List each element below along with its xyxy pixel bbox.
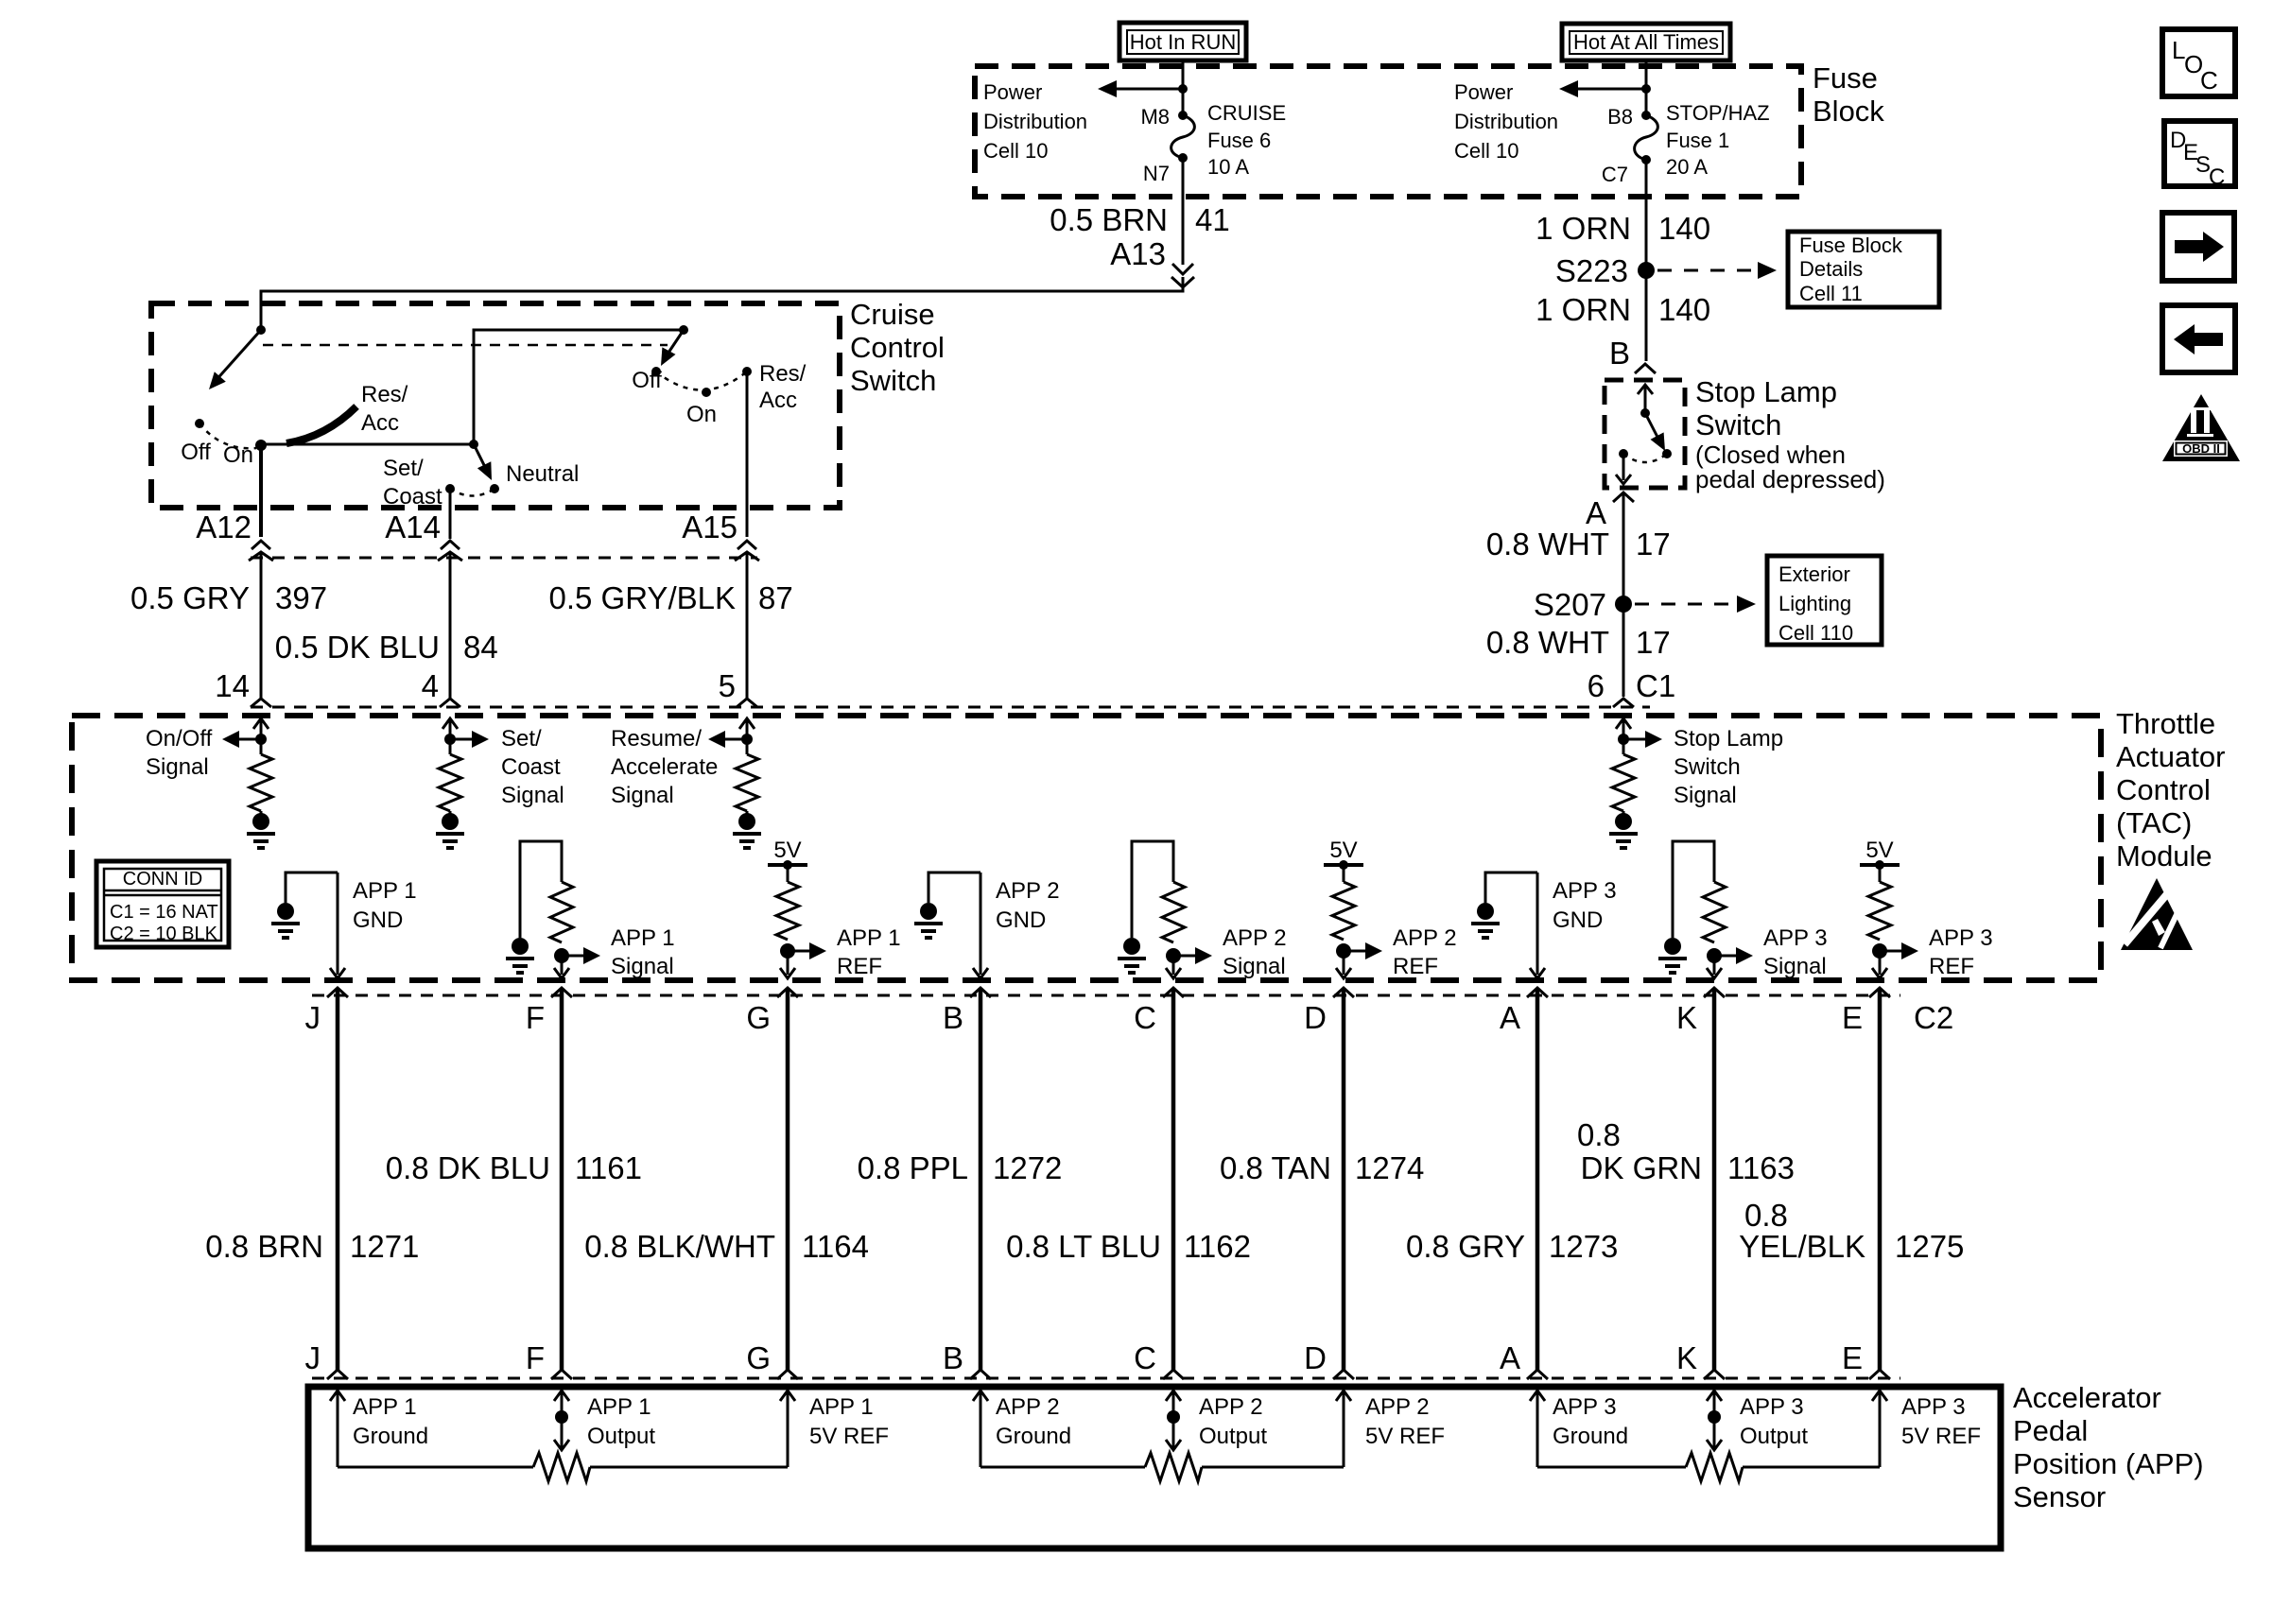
APP 2 pull resistor [1162, 882, 1185, 942]
svg-text:0.8 LT BLU: 0.8 LT BLU [1006, 1229, 1161, 1264]
svg-text:On: On [223, 442, 253, 468]
label: APP 2 5V REF [1365, 1394, 1445, 1449]
svg-text:Details: Details [1799, 257, 1863, 281]
APP 3 REF resistor [1879, 865, 1882, 882]
svg-text:Cell 10: Cell 10 [1454, 139, 1518, 163]
wire: harness B from TAC to APP sensor [979, 988, 983, 1370]
svg-text:A14: A14 [385, 510, 441, 544]
svg-text:Res/: Res/ [759, 361, 807, 387]
svg-text:5V: 5V [1865, 838, 1893, 863]
svg-text:Sensor: Sensor [2013, 1480, 2106, 1513]
svg-text:Res/: Res/ [361, 382, 408, 407]
wire: Set/Coast contact down to connector A14 [449, 489, 452, 539]
svg-text:APP 2: APP 2 [1393, 925, 1457, 951]
svg-text:A12: A12 [196, 510, 252, 544]
svg-text:Output: Output [1199, 1424, 1267, 1449]
svg-text:B: B [943, 1340, 963, 1375]
svg-text:C1 = 16 NAT: C1 = 16 NAT [110, 902, 218, 923]
label: STOP/HAZ Fuse 1 20 A [1666, 101, 1770, 179]
ground [449, 811, 452, 815]
label: Resume/ Accelerate Signal [611, 726, 718, 808]
svg-text:Cell 11: Cell 11 [1799, 282, 1863, 305]
svg-text:140: 140 [1658, 292, 1710, 327]
reference box: Exterior Lighting Cell 110 [1767, 556, 1882, 645]
svg-text:Control: Control [2116, 773, 2211, 806]
svg-text:C2: C2 [1914, 1000, 1953, 1035]
APP 1 potentiometer element [338, 1453, 788, 1481]
node: junction at TAC input [1618, 734, 1629, 745]
APP 3 signal tap arrow [1714, 947, 1753, 964]
label: Cruise Control Switch [850, 298, 945, 397]
APP 1 5V REF pin arrow [780, 1391, 795, 1467]
ESD sensitivity symbol [2121, 878, 2193, 950]
svg-text:0.8: 0.8 [1577, 1117, 1621, 1152]
node: junction on CRUISE feed [1178, 84, 1188, 94]
APP 2 REF resistor [1343, 865, 1345, 882]
label: 1 ORN 140 (lower) [1536, 292, 1710, 327]
connector symbol at APP pin B [970, 1370, 991, 1379]
CONN ID table [96, 861, 229, 947]
ground [260, 811, 263, 815]
svg-text:YEL/BLK: YEL/BLK [1739, 1229, 1865, 1264]
APP 1 signal ground [512, 938, 529, 955]
svg-text:K: K [1676, 1340, 1697, 1375]
ground [746, 811, 749, 815]
label: Throttle Actuator Control (TAC) Module [2116, 707, 2225, 872]
connector symbol at TAC pin 14 [251, 699, 271, 707]
splice S207 [1615, 596, 1632, 613]
svg-text:0.8 TAN: 0.8 TAN [1220, 1150, 1331, 1185]
svg-text:Fuse 6: Fuse 6 [1207, 129, 1271, 152]
TAC C2 connector face dashed line [312, 994, 1900, 997]
svg-text:Set/: Set/ [383, 456, 424, 481]
wire: harness A from TAC to APP sensor [1536, 988, 1540, 1370]
APP 1 signal input network [520, 841, 562, 938]
svg-text:Signal: Signal [1223, 954, 1286, 979]
pull resistor [1612, 754, 1635, 811]
cruise switch pole 1: pivot node [256, 325, 266, 335]
svg-text:REF: REF [1393, 954, 1438, 979]
cruise switch: travel arc Set/Coast-Neutral [450, 489, 495, 496]
wire: 0.5 GRY/BLK 87 (A15 to TAC 5) [746, 552, 749, 699]
svg-text:APP 3: APP 3 [1763, 925, 1828, 951]
TAC C1 connector face dashed line [251, 706, 1650, 709]
cruise switch Set/Coast: movable arm toward Neutral [474, 444, 492, 480]
svg-text:0.8 PPL: 0.8 PPL [858, 1150, 968, 1185]
svg-text:6: 6 [1588, 668, 1605, 703]
svg-text:1163: 1163 [1727, 1150, 1795, 1185]
stop lamp switch dashed box [1605, 380, 1685, 488]
wire: harness J from TAC to APP sensor [336, 988, 340, 1370]
svg-text:APP 2: APP 2 [1223, 925, 1287, 951]
svg-text:M8: M8 [1140, 105, 1170, 129]
stop lamp switch: left contact [1619, 449, 1628, 458]
svg-text:Switch: Switch [1674, 754, 1741, 780]
label: Power Distribution Cell 10 (right) [1454, 80, 1558, 163]
label: APP 1 Output [587, 1394, 655, 1449]
svg-text:Neutral: Neutral [506, 461, 579, 487]
svg-text:APP 1: APP 1 [353, 1394, 417, 1420]
APP 2 potentiometer element [980, 1453, 1344, 1481]
node: junction on STOP/HAZ feed [1641, 84, 1651, 94]
connector face dashed line (cruise switch connector) [251, 557, 757, 560]
svg-text:B: B [943, 1000, 963, 1035]
APP 3 signal wire to connector [1707, 956, 1722, 978]
svg-text:Coast: Coast [501, 754, 561, 780]
wire: 0.8 WHT 17 from S207 to TAC C1 pin 6 [1622, 604, 1625, 697]
svg-text:0.5 GRY/BLK: 0.5 GRY/BLK [548, 580, 736, 615]
wire: 0.8 WHT 17 from stop lamp switch to S207 [1622, 494, 1625, 604]
APP 1 ground symbol [277, 903, 294, 920]
svg-text:APP 1: APP 1 [809, 1394, 874, 1420]
svg-text:Hot At All Times: Hot At All Times [1573, 30, 1719, 54]
cruise switch pole 2: pivot node [679, 325, 688, 335]
pull resistor [736, 754, 758, 811]
label: APP 1 5V REF [809, 1394, 889, 1449]
APP 1 wire to connector [330, 872, 345, 978]
svg-text:GND: GND [353, 907, 403, 933]
svg-text:Output: Output [587, 1424, 655, 1449]
stop lamp switch: pivot [1640, 408, 1650, 418]
svg-text:10 A: 10 A [1207, 155, 1249, 179]
APP 3 Ground pin arrow [1530, 1391, 1545, 1467]
node: APP 3 signal junction [1707, 948, 1722, 963]
svg-text:Ground: Ground [1553, 1424, 1628, 1449]
cruise switch pole 1: On contact / junction [255, 440, 267, 451]
label: 0.8 DK BLU 1161 [386, 1150, 642, 1185]
svg-text:Signal: Signal [146, 754, 209, 780]
svg-text:0.8 BLK/WHT: 0.8 BLK/WHT [584, 1229, 775, 1264]
svg-text:0.5 DK BLU: 0.5 DK BLU [275, 630, 440, 665]
cruise switch pole 2: travel arc [656, 371, 747, 390]
svg-text:1272: 1272 [993, 1150, 1062, 1185]
svg-text:140: 140 [1658, 211, 1710, 246]
svg-text:C: C [1134, 1340, 1156, 1375]
label: APP 2 Output [1199, 1394, 1267, 1449]
APP 1 5V supply [768, 838, 807, 870]
pull resistor [250, 754, 272, 811]
APP 3 signal ground [1664, 938, 1681, 955]
svg-text:1164: 1164 [802, 1229, 869, 1264]
svg-text:Accelerator: Accelerator [2013, 1381, 2161, 1414]
svg-text:APP 1: APP 1 [837, 925, 901, 951]
label: Set/ Coast Signal [501, 726, 564, 808]
ground [1622, 811, 1625, 815]
wire: feed to cruise switch pole 2 [474, 330, 684, 444]
svg-text:Switch: Switch [1695, 408, 1781, 441]
APP 2 ground symbol [920, 903, 937, 920]
connector symbol at TAC pin D [1333, 988, 1354, 997]
svg-text:E: E [1842, 1000, 1863, 1035]
power label box: Hot At All Times [1562, 24, 1730, 60]
label: 0.8 GRY 1273 [1406, 1229, 1618, 1264]
wire: cruise feed across to cruise control switch [261, 277, 1183, 330]
svg-text:APP 1: APP 1 [353, 878, 417, 904]
svg-text:B8: B8 [1607, 105, 1633, 129]
connector symbol at stop lamp switch pin A [1613, 492, 1634, 502]
svg-text:Accelerate: Accelerate [611, 754, 718, 780]
signal tap arrow [708, 731, 747, 748]
stop lamp switch: right contact [1662, 449, 1672, 458]
svg-text:Throttle: Throttle [2116, 707, 2215, 740]
svg-text:Switch: Switch [850, 364, 936, 397]
svg-text:5V REF: 5V REF [809, 1424, 889, 1449]
APP 2 wiper arrow [1166, 1440, 1181, 1450]
svg-text:14: 14 [215, 668, 250, 703]
icon: DESC box [2164, 121, 2235, 190]
svg-text:Cell 10: Cell 10 [983, 139, 1048, 163]
connector symbol at TAC pin 4 [440, 699, 460, 707]
svg-text:Exterior: Exterior [1778, 562, 1850, 586]
svg-text:Ground: Ground [353, 1424, 428, 1449]
label: APP 2 REF [1393, 925, 1457, 979]
label: 0.8 LT BLU 1162 [1006, 1229, 1251, 1264]
inline connector chevrons at A15 [735, 541, 759, 561]
svg-text:CONN ID: CONN ID [123, 869, 202, 890]
svg-text:Lighting: Lighting [1778, 592, 1851, 615]
APP 2 REF tap arrow [1344, 942, 1382, 959]
connector symbol at TAC pin K [1704, 988, 1725, 997]
connector symbol at TAC pin F [551, 988, 572, 997]
fuse block dashed boundary [975, 66, 1801, 197]
svg-text:41: 41 [1195, 202, 1230, 237]
label: APP 1 Ground [353, 1394, 428, 1449]
node: APP 3 REF junction [1872, 943, 1887, 959]
node: APP 1 wiper junction [555, 1410, 568, 1424]
APP 1 wiper arrow [554, 1440, 569, 1450]
label: APP 3 GND [1553, 878, 1617, 933]
APP 3 pull resistor [1703, 882, 1726, 942]
svg-text:S207: S207 [1534, 587, 1606, 622]
connector symbol at APP pin J [327, 1370, 348, 1379]
svg-text:Actuator: Actuator [2116, 740, 2225, 773]
label: APP 2 GND [996, 878, 1060, 933]
svg-text:Stop Lamp: Stop Lamp [1695, 375, 1837, 408]
svg-text:397: 397 [275, 580, 327, 615]
svg-text:pedal depressed): pedal depressed) [1695, 465, 1885, 493]
power label box: Hot In RUN [1119, 23, 1246, 60]
svg-text:APP 3: APP 3 [1901, 1394, 1966, 1420]
stop lamp switch: input arrow [1638, 385, 1653, 413]
inline connector chevrons at A14 [438, 541, 462, 561]
connector symbol at TAC pin 6 [1613, 699, 1634, 707]
connector symbol at APP pin A [1527, 1370, 1548, 1379]
APP 1 REF wire to connector [780, 951, 795, 978]
svg-text:Control: Control [850, 331, 945, 364]
label: APP 2 Signal [1223, 925, 1287, 979]
wire: harness C from TAC to APP sensor [1171, 988, 1176, 1370]
wire: power distribution tap (left arrow) [1098, 80, 1183, 97]
stop lamp switch: travel arc [1623, 454, 1667, 462]
fuse F1: STOP/HAZ Fuse 1 20 A [1635, 115, 1658, 160]
wire: harness D from TAC to APP sensor [1342, 988, 1346, 1370]
label: 0.8 DK GRN 1163 [1577, 1117, 1795, 1185]
connector symbol at APP pin C [1163, 1370, 1184, 1379]
svg-text:APP 3: APP 3 [1929, 925, 1993, 951]
svg-text:D: D [1304, 1000, 1327, 1035]
wire: link from On contact to Set/Coast pivot [261, 443, 474, 446]
label: 1 ORN 140 (upper) [1536, 211, 1710, 246]
svg-text:20 A: 20 A [1666, 155, 1708, 179]
connector symbol at APP pin G [777, 1370, 798, 1379]
svg-text:0.8 DK BLU: 0.8 DK BLU [386, 1150, 550, 1185]
svg-text:Resume/: Resume/ [611, 726, 702, 752]
svg-text:A: A [1500, 1340, 1520, 1375]
svg-text:Acc: Acc [361, 410, 399, 436]
label: APP 3 5V REF [1901, 1394, 1981, 1449]
svg-text:17: 17 [1636, 527, 1671, 561]
svg-text:0.8 BRN: 0.8 BRN [205, 1229, 323, 1264]
svg-text:0.5 GRY: 0.5 GRY [130, 580, 250, 615]
svg-text:1 ORN: 1 ORN [1536, 211, 1631, 246]
signal tap arrow [222, 731, 261, 748]
svg-text:C2 = 10 BLK: C2 = 10 BLK [110, 924, 218, 944]
node: APP 1 REF junction [780, 943, 795, 959]
svg-text:K: K [1676, 1000, 1697, 1035]
cruise switch pole 1: Off contact [195, 419, 204, 428]
svg-text:84: 84 [463, 630, 498, 665]
icon: LOC box [2162, 29, 2235, 96]
APP 1 signal tap arrow [562, 947, 600, 964]
APP 1 pull resistor [550, 882, 573, 942]
connector symbol at TAC pin A [1527, 988, 1548, 997]
connector symbol at TAC pin E [1869, 988, 1890, 997]
inline connector chevrons at A13 [1171, 264, 1194, 287]
svg-text:D: D [1304, 1340, 1327, 1375]
svg-text:Ground: Ground [996, 1424, 1071, 1449]
cruise switch pole 1: movable arm toward Off [209, 330, 261, 389]
label: APP 3 Ground [1553, 1394, 1628, 1449]
svg-text:Power: Power [1454, 80, 1513, 104]
label: (Closed when pedal depressed) [1695, 441, 1885, 493]
node: APP 2 REF junction [1336, 943, 1351, 959]
svg-text:C: C [2200, 66, 2218, 95]
TAC input arrow (into module) [739, 718, 755, 754]
APP 2 signal wire to connector [1166, 956, 1181, 978]
connector symbol at TAC pin J [327, 988, 348, 997]
node: APP 2 wiper junction [1167, 1410, 1180, 1424]
svg-text:A: A [1586, 495, 1606, 530]
svg-text:Module: Module [2116, 839, 2212, 872]
APP 3 5V supply [1860, 838, 1900, 870]
svg-text:(TAC): (TAC) [2116, 806, 2192, 839]
svg-text:Output: Output [1740, 1424, 1808, 1449]
connector symbol at APP pin K [1704, 1370, 1725, 1379]
svg-text:On/Off: On/Off [146, 726, 213, 752]
signal tap arrow [450, 731, 489, 748]
svg-text:C1: C1 [1636, 668, 1675, 703]
APP 1 REF tap arrow [788, 942, 826, 959]
APP 2 Output pin arrow [1166, 1391, 1181, 1448]
TAC input arrow (into module) [442, 718, 458, 754]
svg-text:5V: 5V [1329, 838, 1357, 863]
label: 0.5 GRY 397 [130, 580, 327, 615]
svg-text:On: On [686, 402, 717, 427]
svg-text:C: C [2209, 164, 2225, 190]
label: APP 1 GND [353, 878, 417, 933]
svg-text:G: G [746, 1000, 771, 1035]
svg-text:Signal: Signal [1763, 954, 1827, 979]
svg-text:5V REF: 5V REF [1901, 1424, 1981, 1449]
label: Stop Lamp Switch [1695, 375, 1837, 441]
label: APP 3 Output [1740, 1394, 1808, 1449]
svg-text:CRUISE: CRUISE [1207, 101, 1286, 125]
svg-text:E: E [1842, 1340, 1863, 1375]
svg-text:Off: Off [181, 440, 211, 465]
APP 1 Ground pin arrow [330, 1391, 345, 1467]
svg-text:GND: GND [1553, 907, 1603, 933]
svg-text:F: F [526, 1340, 545, 1375]
APP 2 5V supply [1324, 838, 1363, 870]
svg-text:S223: S223 [1555, 253, 1628, 288]
svg-text:0.8: 0.8 [1744, 1198, 1788, 1233]
svg-text:5V REF: 5V REF [1365, 1424, 1445, 1449]
label: pin 6 connector C1 [1588, 668, 1676, 703]
stop lamp switch: output wire with arrow [1616, 454, 1631, 484]
label: 0.8 YEL/BLK 1275 [1739, 1198, 1964, 1264]
inline connector chevrons at A12 [249, 541, 273, 561]
label: Stop Lamp Switch Signal [1674, 726, 1783, 808]
svg-text:APP 3: APP 3 [1553, 1394, 1617, 1420]
svg-text:5V: 5V [773, 838, 801, 863]
svg-text:OBD II: OBD II [2182, 441, 2220, 456]
svg-text:Cell 110: Cell 110 [1778, 621, 1853, 645]
APP 2 ground hook [928, 872, 980, 903]
svg-text:C7: C7 [1602, 163, 1628, 186]
wire: 0.5 DK BLU 84 (A14 to TAC 4) [449, 552, 452, 699]
APP 3 REF wire to connector [1872, 951, 1887, 978]
APP 2 signal ground [1123, 938, 1140, 955]
connector symbol at APP pin E [1869, 1370, 1890, 1379]
Throttle Actuator Control (TAC) Module dashed box [72, 716, 2101, 980]
label: Fuse Block [1813, 61, 1884, 128]
svg-text:J: J [305, 1000, 321, 1035]
cruise switch pole 2: Res/Acc contact [742, 367, 752, 376]
svg-text:Fuse Block: Fuse Block [1799, 233, 1903, 257]
svg-text:B: B [1609, 336, 1630, 371]
svg-text:Distribution: Distribution [983, 110, 1087, 133]
label: APP 3 Signal [1763, 925, 1828, 979]
connector symbol at TAC pin C [1163, 988, 1184, 997]
APP 1 Output pin arrow [554, 1391, 569, 1448]
label: 0.5 GRY/BLK 87 [548, 580, 792, 615]
wire: harness K from TAC to APP sensor [1712, 988, 1717, 1370]
APP 3 potentiometer element [1537, 1453, 1880, 1481]
label: 0.8 WHT 17 (lower) [1486, 625, 1671, 660]
svg-text:1275: 1275 [1895, 1229, 1964, 1264]
label: Res/Acc (pole 2) [759, 361, 807, 413]
cruise switch pole 2: movable arm toward Off [661, 330, 684, 366]
APP 2 Ground pin arrow [973, 1391, 988, 1467]
svg-text:1162: 1162 [1184, 1229, 1251, 1264]
svg-text:APP 3: APP 3 [1553, 878, 1617, 904]
node: APP 3 wiper junction [1708, 1410, 1721, 1424]
svg-text:Distribution: Distribution [1454, 110, 1558, 133]
label: 0.8 TAN 1274 [1220, 1150, 1424, 1185]
node: APP 1 signal junction [554, 948, 569, 963]
APP 3 ground symbol [1477, 903, 1494, 920]
svg-text:APP 2: APP 2 [996, 878, 1060, 904]
wire: 0.5 BRN 41 from fuse N7 [1182, 158, 1185, 265]
cruise switch pole 1: Res/Acc contact segment [286, 406, 356, 443]
TAC input arrow (into module) [253, 718, 269, 754]
stop lamp switch: movable arm [1645, 413, 1665, 451]
fuse F6: CRUISE Fuse 6 10 A [1171, 115, 1195, 158]
svg-text:0.5 BRN: 0.5 BRN [1050, 202, 1168, 237]
svg-text:C: C [1134, 1000, 1156, 1035]
svg-text:F: F [526, 1000, 545, 1035]
svg-text:Power: Power [983, 80, 1042, 104]
